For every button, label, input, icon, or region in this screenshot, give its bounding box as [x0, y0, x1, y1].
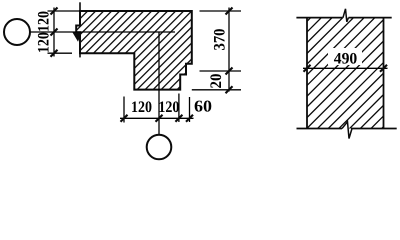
- extension line bottom: [48, 52, 73, 54]
- grid bubble (bottom): [147, 135, 172, 160]
- svg-text:20: 20: [208, 74, 225, 89]
- extension lines bottom: [123, 97, 125, 123]
- svg-text:120: 120: [158, 99, 179, 116]
- wall hatching (right detail): [188, 10, 400, 140]
- vertical axis line: [158, 32, 160, 135]
- bottom boundary line with break: [297, 128, 343, 130]
- tick marks right: [226, 8, 233, 15]
- dimension line (bottom, 120+120+60): [120, 117, 194, 119]
- extension line mid right: [200, 70, 242, 72]
- tick marks: [51, 8, 58, 15]
- wall face line overshoot (below band bottom): [79, 53, 81, 57]
- top boundary line with break: [296, 17, 342, 19]
- horizontal axis line: [30, 31, 175, 33]
- dimension line 490: [328, 48, 362, 65]
- wall hatching (left detail): [0, 0, 387, 100]
- tick marks bottom: [121, 115, 128, 122]
- svg-text:60: 60: [194, 97, 212, 116]
- svg-text:490: 490: [334, 51, 358, 68]
- wall faces (right detail): [306, 18, 308, 129]
- solid triangle marker at left wall face: [72, 32, 81, 42]
- grid bubble (left): [4, 19, 30, 45]
- wall section outline (L-shaped corner): [76, 11, 192, 90]
- svg-text:120: 120: [131, 99, 152, 116]
- svg-text:120: 120: [36, 32, 53, 53]
- svg-text:370: 370: [212, 29, 229, 51]
- extension line bottom right: [192, 89, 241, 91]
- dimension line (left, 120+120): [53, 8, 55, 57]
- svg-text:120: 120: [36, 11, 53, 32]
- dimension line (right, 370+20): [228, 8, 230, 92]
- wall face line overshoot (above top edge): [79, 2, 81, 11]
- extension line top: [48, 10, 81, 12]
- extension line top right: [200, 10, 242, 12]
